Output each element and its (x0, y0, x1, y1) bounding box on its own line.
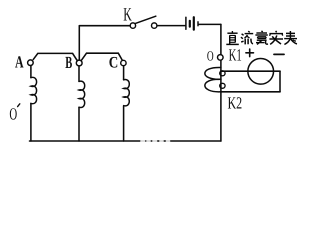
wire A to B (top tap wire) (33, 53, 77, 60)
wire meter loop bottom edge (221, 91, 280, 93)
hanzi 安 (269, 31, 283, 45)
inductor coil B (79, 81, 85, 107)
svg-text:K: K (123, 4, 132, 25)
secondary coil K1-K2 loop 2 inner curl (220, 83, 225, 88)
battery cell plate long 1 (185, 17, 187, 29)
wire top horizontal to switch (79, 25, 130, 27)
meter minus mark (274, 53, 284, 55)
terminal K1 on right wire (218, 55, 224, 61)
hanzi 表 (284, 31, 297, 45)
switch K blade (135, 16, 156, 24)
battery cell plate long 2 (193, 17, 195, 29)
svg-text:K1: K1 (229, 45, 242, 64)
hanzi 流 (241, 31, 253, 44)
wire stub C terminal to coil (123, 66, 125, 80)
wire switch to battery (157, 25, 185, 27)
hanzi 毫 (255, 31, 268, 44)
wire riser from B to top (78, 26, 80, 60)
wire drop below coil C (123, 106, 125, 141)
wire stub B terminal to coil (78, 66, 80, 82)
wire drop below coil B (78, 107, 80, 141)
switch K right contact (152, 23, 157, 28)
svg-text:O: O (207, 49, 214, 64)
terminal B (76, 60, 82, 66)
wire bottom horizontal (30, 140, 221, 142)
inductor coil A (31, 77, 37, 103)
meter plus mark (246, 49, 254, 57)
hanzi 直 (226, 31, 239, 44)
terminal C (121, 60, 126, 65)
wire B to C (81, 53, 122, 60)
secondary coil K1-K2 loop 2 (205, 79, 221, 92)
svg-text:K2: K2 (228, 94, 243, 113)
terminal A (28, 60, 34, 66)
scan speckle gaps on bottom wire (142, 140, 170, 143)
O-prime tick (left label) (18, 104, 20, 107)
secondary coil K1-K2 loop 1 (205, 67, 221, 79)
battery cell plate short 1 (189, 21, 191, 27)
svg-text:O: O (9, 105, 17, 124)
wire battery to top-right corner (199, 23, 221, 25)
wire meter loop top edge (221, 70, 280, 72)
switch K left contact (130, 23, 135, 28)
wire drop below coil A (30, 103, 32, 141)
meter (DC milliammeter) circle (248, 58, 274, 84)
wire meter loop right edge (279, 71, 281, 92)
svg-text:A: A (15, 52, 24, 71)
secondary coil K1-K2 loop 1 inner curl (220, 71, 225, 76)
wire stub A terminal to coil (30, 66, 32, 78)
svg-text:C: C (109, 55, 119, 72)
inductor coil C (124, 80, 130, 106)
svg-text:B: B (65, 53, 72, 72)
wire right vertical (220, 24, 222, 141)
battery cell plate short 2 (197, 22, 199, 26)
